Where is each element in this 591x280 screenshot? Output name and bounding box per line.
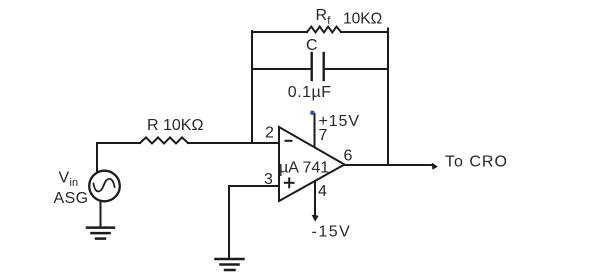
wire capacitor right lead bbox=[325, 68, 388, 70]
wire top-left feedback segment bbox=[252, 31, 307, 33]
op-amp plus sign pin 3 bbox=[285, 178, 294, 187]
resistor R bbox=[140, 137, 188, 143]
svg-text:+15V: +15V bbox=[319, 113, 360, 130]
wire right feedback vertical bbox=[387, 29, 389, 166]
svg-text:C: C bbox=[306, 37, 318, 54]
svg-text:f: f bbox=[327, 15, 331, 27]
wire input left segment bbox=[97, 142, 140, 144]
svg-text:2: 2 bbox=[265, 125, 274, 142]
capacitor C plates bbox=[312, 53, 324, 80]
wire capacitor left lead bbox=[252, 68, 311, 70]
wire source top vertical bbox=[96, 143, 98, 172]
op-amp minus sign pin 2 bbox=[286, 140, 292, 142]
wire -15V supply pin 4 bbox=[314, 181, 316, 216]
svg-text:To CRO: To CRO bbox=[445, 154, 508, 171]
svg-text:10KΩ: 10KΩ bbox=[343, 11, 382, 28]
svg-text:6: 6 bbox=[344, 148, 353, 165]
svg-text:in: in bbox=[70, 177, 79, 189]
wire top-right feedback segment bbox=[341, 31, 388, 33]
op-amp U1 triangle bbox=[279, 127, 345, 201]
svg-text:0.1µF: 0.1µF bbox=[288, 84, 332, 101]
wire input right segment to pin 2 bbox=[188, 142, 279, 144]
arrowhead To CRO bbox=[432, 163, 438, 170]
svg-text:µA 741: µA 741 bbox=[279, 160, 329, 177]
svg-text:R 10KΩ: R 10KΩ bbox=[147, 117, 203, 134]
svg-text:4: 4 bbox=[318, 183, 327, 200]
svg-text:R: R bbox=[316, 7, 328, 24]
ground (pin 3) bbox=[216, 259, 244, 270]
ground (source) bbox=[87, 228, 114, 239]
wire pin 3 horizontal bbox=[229, 185, 279, 187]
arrowhead -15V bbox=[312, 215, 319, 222]
wire output to CRO bbox=[345, 164, 434, 166]
source Vin ASG circle bbox=[89, 171, 120, 202]
svg-text:V: V bbox=[59, 170, 70, 187]
wire left feedback vertical bbox=[251, 31, 253, 143]
svg-text:-15V: -15V bbox=[312, 224, 352, 241]
svg-text:ASG: ASG bbox=[54, 190, 89, 207]
svg-text:3: 3 bbox=[264, 171, 273, 188]
wire source to ground bbox=[100, 201, 102, 227]
node blue dot +15V bbox=[310, 111, 315, 116]
source sine symbol bbox=[94, 179, 115, 192]
wire pin 3 vertical to ground bbox=[228, 186, 230, 258]
resistor Rf bbox=[307, 27, 341, 33]
wire +15V supply pin 7 bbox=[314, 114, 316, 147]
